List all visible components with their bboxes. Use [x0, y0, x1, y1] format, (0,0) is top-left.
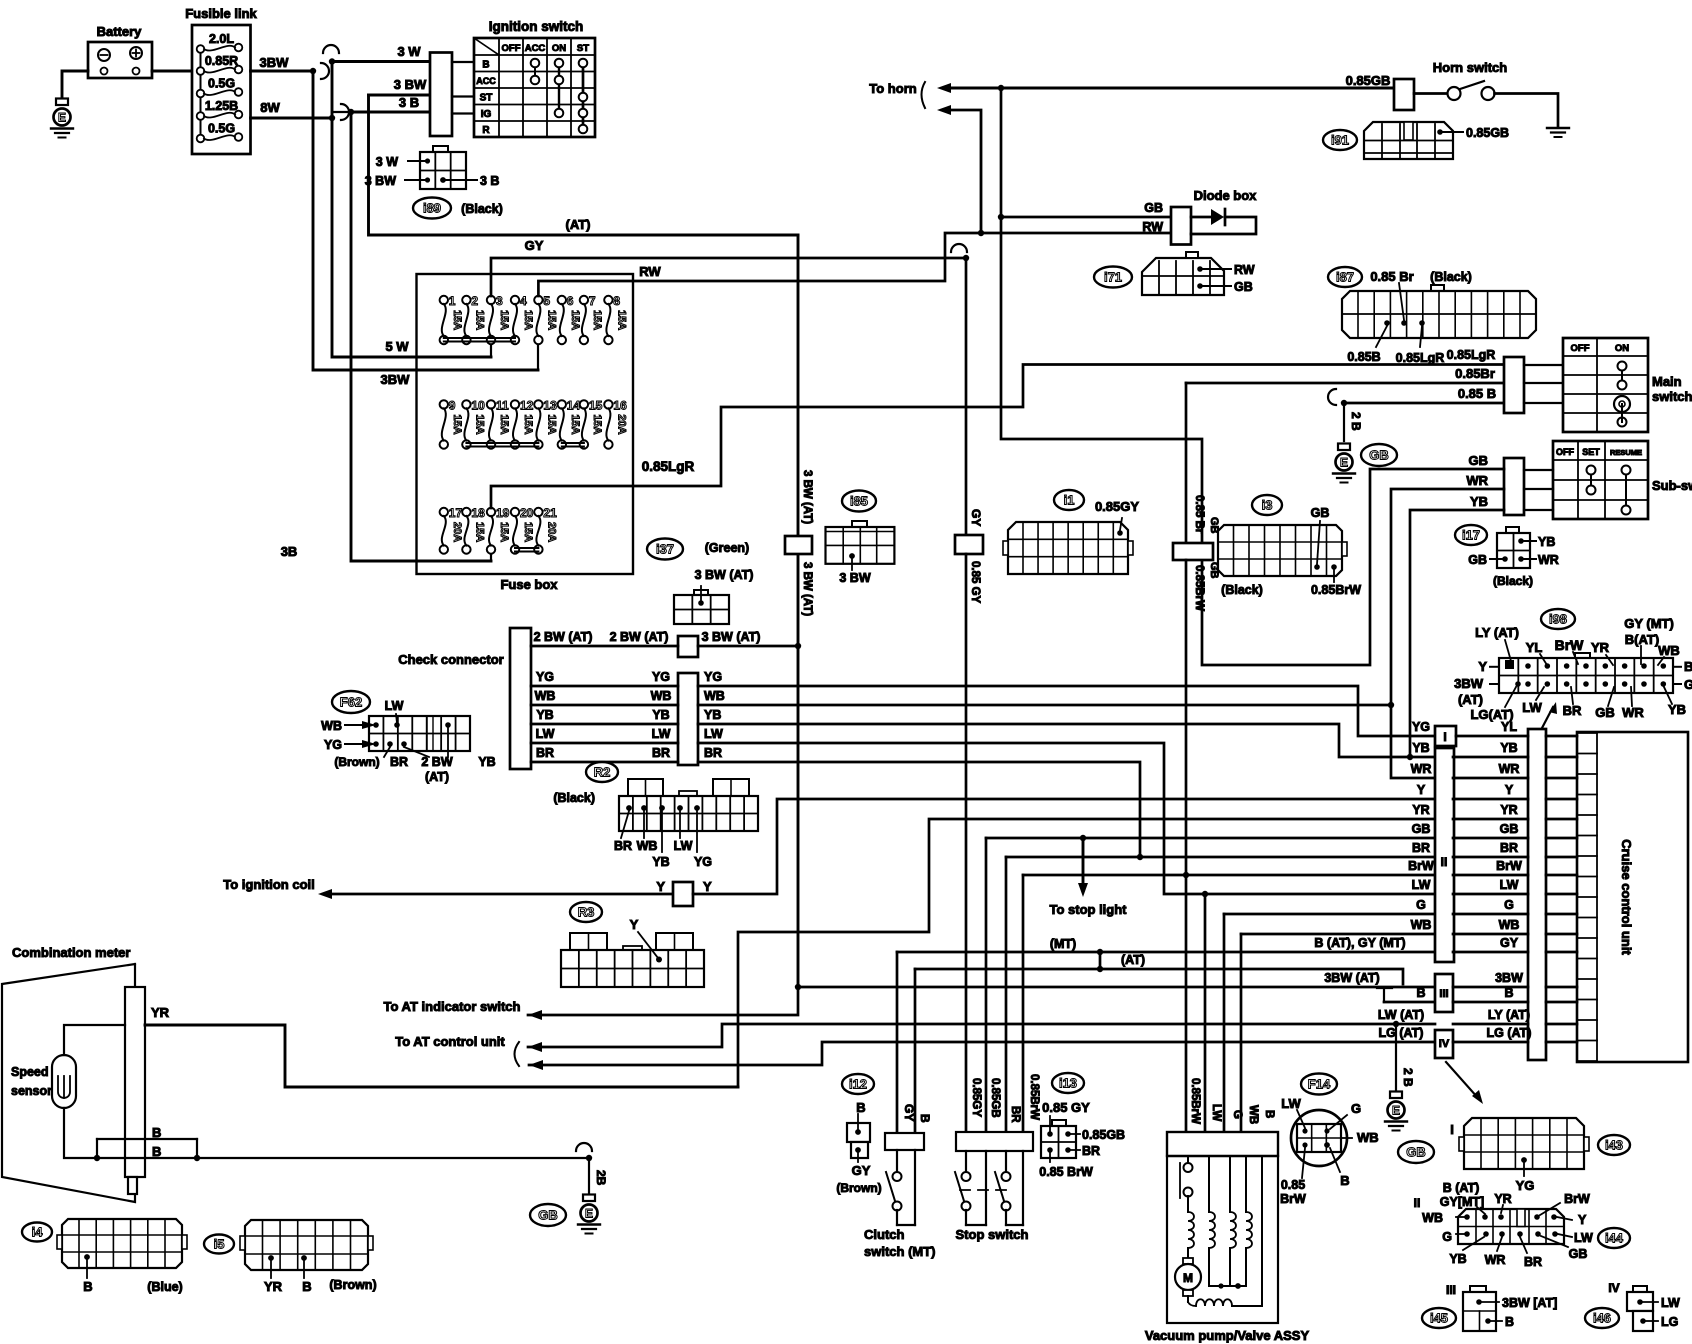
wire BrW row to cruise [1453, 874, 1528, 877]
svg-text:i87: i87 [1336, 270, 1354, 285]
wire 3BW(AT) vertical [797, 235, 800, 987]
svg-text:0.85BrW: 0.85BrW [1311, 583, 1361, 597]
svg-text:YR: YR [151, 1005, 170, 1020]
connector i4 [22, 1223, 52, 1242]
wire speed sensor top [64, 1025, 125, 1055]
wire B to clutch switch [914, 969, 917, 1133]
svg-text:15: 15 [589, 398, 603, 412]
svg-text:YB: YB [1500, 741, 1517, 755]
svg-text:i45: i45 [1430, 1311, 1448, 1326]
wire LW to cruise [698, 743, 1435, 894]
wire horn switch to ground [1495, 94, 1559, 128]
svg-text:1.25B: 1.25B [205, 99, 238, 113]
wire BR to stop switch [1005, 857, 1008, 1132]
fuse 17 20A [440, 508, 448, 516]
svg-text:YR: YR [1494, 1192, 1511, 1206]
wire BR to cruise [698, 762, 1140, 857]
wire to AT indicator switch [528, 987, 798, 1015]
svg-text:B: B [1340, 1173, 1349, 1188]
svg-text:3BW: 3BW [1495, 971, 1523, 985]
GB oval (bottom right) [1398, 1141, 1434, 1163]
svg-text:M: M [1183, 1271, 1193, 1285]
svg-text:E: E [585, 1207, 593, 1221]
svg-text:0.85B: 0.85B [1347, 350, 1380, 364]
ground E (bottom right) [1390, 1092, 1402, 1099]
svg-text:OFF: OFF [502, 43, 521, 54]
vacuum pump box [1167, 1156, 1278, 1323]
stop switch [956, 1132, 1033, 1151]
svg-text:R3: R3 [578, 905, 595, 920]
wire speed sensor bottom B [64, 1108, 589, 1158]
svg-text:GB: GB [1412, 822, 1431, 836]
svg-text:3B: 3B [281, 544, 298, 559]
svg-text:15A: 15A [522, 310, 534, 330]
svg-text:20A: 20A [615, 414, 627, 434]
svg-text:9: 9 [449, 398, 456, 412]
svg-text:G: G [1416, 898, 1426, 912]
svg-text:0.85 GY: 0.85 GY [1042, 1100, 1090, 1115]
wire GB to stop switch [985, 838, 988, 1132]
svg-text:To stop light: To stop light [1049, 902, 1127, 917]
svg-text:i37: i37 [656, 542, 674, 557]
svg-text:3 BW: 3 BW [394, 77, 427, 92]
svg-text:3 BW: 3 BW [365, 174, 396, 188]
svg-text:0.85R: 0.85R [205, 54, 238, 68]
svg-text:B: B [1684, 659, 1692, 674]
wire GY row to cruise [1453, 951, 1528, 954]
connector i12 [842, 1074, 874, 1094]
wire 3B vertical to fuse 19 [351, 112, 491, 561]
junction 2B (main) [1341, 400, 1347, 406]
svg-text:BR: BR [652, 746, 670, 760]
sub-switch contacts [1590, 470, 1592, 490]
wire G row to cruise [1453, 913, 1528, 916]
svg-text:R: R [482, 125, 490, 136]
svg-text:15A: 15A [498, 310, 510, 330]
svg-text:YB: YB [1449, 1252, 1466, 1266]
wire 0.85LgR from fuse 19 [491, 365, 1504, 509]
svg-text:2 BW: 2 BW [421, 755, 452, 769]
svg-text:YL: YL [1526, 640, 1543, 655]
svg-text:BrW: BrW [1555, 637, 1585, 653]
ignition switch connector bar [430, 53, 452, 137]
svg-text:2 BW (AT): 2 BW (AT) [610, 630, 669, 644]
svg-text:YB: YB [1412, 741, 1429, 755]
svg-text:0.85BrW: 0.85BrW [1193, 565, 1205, 611]
svg-text:GY: GY [902, 1104, 916, 1121]
svg-text:2B: 2B [594, 1170, 608, 1186]
ground E (main) [1338, 444, 1350, 451]
cruise middle strip [1528, 729, 1546, 1060]
svg-text:Ignition switch: Ignition switch [489, 19, 584, 34]
wire B row cruise III [1384, 1001, 1435, 1004]
svg-text:II: II [1441, 855, 1448, 869]
wire 3BW row to cruise [1453, 986, 1528, 989]
svg-text:GB: GB [1311, 506, 1330, 520]
sub-switch connector [1504, 458, 1524, 515]
ignition contact lines [534, 63, 536, 80]
connector i87 oval [1328, 267, 1362, 287]
svg-text:LW: LW [1210, 1104, 1222, 1121]
wire YB from sub-switch [1410, 510, 1504, 757]
wire YB to cruise [698, 724, 1435, 757]
svg-text:BR: BR [1524, 1255, 1542, 1269]
svg-text:Y: Y [1578, 1213, 1587, 1227]
connector i91 [1323, 130, 1357, 150]
svg-text:B: B [1504, 986, 1513, 1000]
svg-text:15A: 15A [615, 310, 627, 330]
svg-text:B: B [302, 1279, 311, 1294]
wire YG to cruise [698, 686, 1435, 736]
svg-text:Battery: Battery [97, 24, 143, 39]
connector i13 [1052, 1073, 1084, 1093]
ground E (bottom) [583, 1195, 595, 1202]
svg-text:OFF: OFF [1571, 343, 1590, 354]
svg-text:Cruise control unit: Cruise control unit [1619, 839, 1634, 955]
svg-text:2.0L: 2.0L [209, 32, 234, 46]
svg-text:20: 20 [520, 506, 534, 520]
svg-text:(Black): (Black) [461, 202, 503, 216]
svg-text:0.85GB: 0.85GB [1082, 1128, 1125, 1142]
svg-text:19: 19 [496, 506, 510, 520]
svg-text:(Black): (Black) [1493, 574, 1533, 588]
svg-text:To AT indicator switch: To AT indicator switch [384, 999, 521, 1014]
svg-text:21: 21 [543, 506, 557, 520]
wire bar to ignition table ST [452, 95, 474, 97]
svg-text:G: G [1684, 677, 1692, 692]
wire G row [1224, 913, 1435, 916]
svg-text:(AT): (AT) [425, 770, 449, 784]
svg-text:16: 16 [613, 398, 627, 412]
i98 arrow [1542, 707, 1553, 728]
svg-text:GB: GB [1500, 822, 1519, 836]
wire RW from fuse 5 [538, 233, 1171, 296]
svg-text:BR: BR [1563, 703, 1582, 718]
svg-text:WB: WB [1247, 1105, 1259, 1124]
svg-text:ACC: ACC [476, 76, 496, 86]
svg-text:0.85BrW: 0.85BrW [1189, 1078, 1201, 1124]
svg-text:II: II [1414, 1196, 1421, 1210]
main switch connector [1504, 357, 1524, 413]
wire to horn 2 [951, 110, 981, 233]
svg-text:(Brown): (Brown) [836, 1181, 881, 1195]
svg-text:B: B [152, 1144, 161, 1159]
svg-text:B: B [482, 60, 489, 71]
connector i5 [204, 1235, 234, 1254]
fuse 16 20A [604, 400, 612, 408]
svg-text:(Brown): (Brown) [334, 755, 379, 769]
junction 3W [329, 58, 335, 64]
svg-text:WB: WB [321, 719, 342, 733]
to ignition coil arrow [318, 889, 332, 899]
svg-text:BR: BR [1500, 841, 1518, 855]
svg-text:(AT): (AT) [1121, 953, 1145, 967]
svg-text:2: 2 [471, 294, 478, 308]
fuse 19 15A [487, 508, 495, 516]
svg-text:B (AT): B (AT) [1443, 1181, 1480, 1195]
svg-text:IG: IG [481, 109, 492, 120]
svg-text:0.85 GY: 0.85 GY [969, 561, 981, 604]
svg-text:ACC: ACC [525, 43, 546, 54]
svg-text:i85: i85 [850, 494, 868, 509]
svg-text:0.85LgR: 0.85LgR [1447, 348, 1496, 362]
svg-text:0.85: 0.85 [1281, 1178, 1305, 1192]
wire 2B to ground (right) [1395, 1024, 1397, 1090]
wire WB check to WR junction [698, 704, 1391, 707]
svg-text:i3: i3 [1262, 498, 1273, 513]
cruise connector IV [1435, 1030, 1453, 1058]
svg-text:14: 14 [567, 398, 581, 412]
svg-text:To AT control unit: To AT control unit [395, 1034, 505, 1049]
svg-text:YG: YG [324, 738, 342, 752]
svg-text:YR: YR [1412, 803, 1429, 817]
svg-text:15A: 15A [473, 522, 485, 542]
svg-text:2 B: 2 B [1401, 1068, 1415, 1087]
svg-text:Y: Y [1478, 659, 1487, 674]
wire WB row to cruise [1453, 933, 1528, 936]
svg-text:YG: YG [1516, 1178, 1535, 1193]
wire 3BW fusible link to node [251, 70, 314, 73]
wire WB check row left [531, 704, 678, 707]
svg-text:YG: YG [694, 855, 712, 869]
svg-text:10: 10 [471, 398, 485, 412]
combination meter bar [125, 987, 145, 1177]
clutch switch [885, 1133, 924, 1150]
svg-text:G: G [1351, 1101, 1361, 1116]
fuse 3 15A [487, 296, 495, 304]
svg-text:YB: YB [1668, 702, 1686, 717]
svg-text:0.85 B: 0.85 B [1458, 386, 1496, 401]
svg-text:III: III [1446, 1283, 1456, 1297]
wire GB to sub-switch [1202, 469, 1504, 665]
svg-text:i17: i17 [1462, 528, 1480, 543]
wire BR row [1006, 856, 1435, 859]
svg-text:LW: LW [1500, 878, 1519, 892]
svg-text:Clutch: Clutch [864, 1227, 905, 1242]
connector i37 [647, 539, 683, 560]
svg-text:GB: GB [1469, 453, 1489, 468]
svg-text:(Brown): (Brown) [329, 1278, 376, 1292]
svg-text:15A: 15A [498, 522, 510, 542]
svg-text:F14: F14 [1308, 1077, 1331, 1092]
svg-text:Y: Y [1505, 783, 1514, 797]
fuse 11 15A [487, 400, 495, 408]
svg-text:WB: WB [637, 839, 658, 853]
svg-text:5: 5 [543, 294, 550, 308]
wire Y [332, 893, 673, 896]
wire YL row to cruise [1456, 735, 1528, 738]
wire YR row to cruise [1453, 818, 1528, 821]
wire 2B to ground [1343, 403, 1345, 441]
fuse 1 15A [440, 296, 448, 304]
cruise connector I [1435, 726, 1456, 746]
svg-text:ST: ST [577, 43, 589, 54]
fuse 13 15A [534, 400, 542, 408]
svg-text:3 BW (AT): 3 BW (AT) [695, 568, 754, 582]
svg-text:LW: LW [1574, 1231, 1593, 1245]
svg-text:GB: GB [1234, 280, 1253, 294]
svg-text:i98: i98 [1549, 612, 1567, 627]
wire WB row [1241, 933, 1435, 936]
svg-text:8W: 8W [260, 100, 280, 115]
svg-text:0.85 BrW: 0.85 BrW [1039, 1165, 1093, 1179]
svg-text:B: B [1416, 986, 1425, 1000]
svg-text:LW: LW [1412, 878, 1431, 892]
svg-text:BR: BR [1412, 841, 1430, 855]
svg-text:B: B [1263, 1110, 1275, 1118]
wire LG(AT) row [529, 1042, 1435, 1065]
svg-text:RESUME: RESUME [1610, 448, 1642, 457]
wire bar to ignition table IG [452, 112, 474, 114]
fuse 7 15A [580, 296, 588, 304]
wire YB check row left [531, 723, 678, 726]
MT/AT link arrow [1099, 952, 1102, 969]
svg-text:(Green): (Green) [705, 541, 749, 555]
svg-text:15A: 15A [545, 310, 557, 330]
fuse 6 15A [558, 296, 566, 304]
svg-text:GB: GB [1406, 1145, 1426, 1160]
diode box connector [1171, 207, 1191, 245]
svg-text:3BW: 3BW [260, 55, 290, 70]
svg-text:Y: Y [703, 879, 712, 894]
svg-text:LG (AT): LG (AT) [1487, 1026, 1532, 1040]
svg-text:B: B [856, 1100, 865, 1115]
to horn arrow 1 [937, 83, 951, 93]
svg-text:GY: GY [1500, 936, 1519, 950]
fuse 9 15A [440, 400, 448, 408]
svg-text:GY: GY [525, 238, 544, 253]
svg-text:i5: i5 [214, 1237, 225, 1252]
wire 0.85GY vertical [965, 554, 968, 1132]
wire LW row to cruise [1453, 893, 1528, 896]
svg-text:i71: i71 [1104, 270, 1122, 285]
connector i98 [1541, 609, 1575, 629]
svg-text:LG(AT): LG(AT) [1470, 707, 1513, 722]
svg-text:sensor: sensor [11, 1084, 52, 1098]
wire 3BW(AT) row [698, 645, 798, 648]
wire 0.85B [1344, 402, 1504, 405]
svg-text:YB: YB [478, 755, 495, 769]
svg-text:BrW: BrW [1564, 1192, 1590, 1206]
svg-text:WB: WB [535, 689, 556, 703]
svg-text:6: 6 [567, 294, 574, 308]
3BW(AT) inline connector [785, 536, 812, 554]
svg-text:15A: 15A [591, 414, 603, 434]
connector i1 [1054, 490, 1084, 510]
svg-text:3BW [AT]: 3BW [AT] [1502, 1296, 1557, 1310]
svg-text:E: E [1340, 456, 1348, 470]
inline connector (Br/GB) [1173, 543, 1213, 560]
sub-switch table [1553, 441, 1648, 519]
wire 0.85Br [1186, 382, 1504, 385]
wire BR row to cruise [1453, 856, 1528, 859]
svg-text:3 BW (AT): 3 BW (AT) [702, 630, 761, 644]
svg-text:12: 12 [520, 398, 534, 412]
svg-text:7: 7 [589, 294, 596, 308]
svg-text:20A: 20A [545, 522, 557, 542]
wire 0.85BrW vertical [1185, 560, 1188, 1132]
svg-text:LW: LW [1661, 1296, 1680, 1310]
svg-text:B(AT): B(AT) [1625, 632, 1659, 647]
svg-text:BrW: BrW [1496, 859, 1522, 873]
vacuum pump rail [1167, 1132, 1278, 1156]
main switch contacts [1621, 366, 1623, 385]
junction GY [963, 255, 969, 261]
svg-text:LW: LW [536, 727, 555, 741]
fuse 2 15A [462, 296, 470, 304]
svg-text:Fuse box: Fuse box [500, 577, 558, 592]
connector i71 [1094, 267, 1132, 288]
svg-text:I: I [1443, 730, 1446, 744]
svg-text:BR: BR [390, 755, 408, 769]
fuse 12 15A [511, 400, 519, 408]
svg-text:Stop switch: Stop switch [956, 1227, 1029, 1242]
i44 oval [1598, 1228, 1630, 1248]
svg-text:15A: 15A [522, 522, 534, 542]
wire LW check row left [531, 742, 678, 745]
svg-text:YG: YG [704, 670, 722, 684]
svg-text:WB: WB [1357, 1130, 1379, 1145]
fuse 4 15A [511, 296, 519, 304]
fuse 10 15A [462, 400, 470, 408]
svg-text:YR: YR [1500, 803, 1517, 817]
svg-text:ON: ON [552, 43, 566, 54]
svg-text:Sub-switch: Sub-switch [1652, 478, 1692, 493]
svg-text:LY (AT): LY (AT) [1475, 625, 1519, 640]
svg-text:F62: F62 [340, 695, 362, 710]
wire GY vertical [965, 258, 968, 537]
connector i87 [1431, 285, 1444, 291]
svg-text:(Black): (Black) [553, 791, 595, 805]
svg-text:Y: Y [1417, 783, 1426, 797]
fuse 21 20A [534, 508, 542, 516]
svg-text:0.85 Br: 0.85 Br [1370, 269, 1413, 284]
check connector strip 2 [678, 636, 698, 657]
svg-text:15A: 15A [473, 414, 485, 434]
wire WB to vacuum pump [1240, 934, 1243, 1132]
svg-text:3BW (AT): 3BW (AT) [1324, 971, 1379, 985]
svg-text:WR: WR [1485, 1253, 1506, 1267]
svg-text:0.85GY: 0.85GY [970, 1078, 982, 1117]
wire battery to ground [62, 71, 88, 100]
svg-text:2 BW (AT): 2 BW (AT) [534, 630, 593, 644]
svg-text:WR: WR [1538, 553, 1559, 567]
svg-text:B: B [152, 1125, 161, 1140]
fuse bus row2 [466, 442, 538, 444]
svg-text:i13: i13 [1059, 1076, 1077, 1091]
svg-text:RW: RW [1142, 220, 1163, 234]
speed sensor [52, 1055, 76, 1108]
svg-text:IV: IV [1439, 1038, 1450, 1050]
svg-text:0.85GB: 0.85GB [989, 1078, 1001, 1118]
svg-text:i1: i1 [1064, 493, 1075, 508]
fusible link box [192, 25, 251, 154]
svg-text:4: 4 [520, 294, 527, 308]
horn switch connector [1394, 79, 1414, 110]
fuse bus row3 [515, 547, 538, 549]
horn switch [1414, 92, 1447, 95]
svg-text:13: 13 [543, 398, 557, 412]
svg-text:BR: BR [1082, 1144, 1100, 1158]
wire LY (AT) row to cruise [1453, 1023, 1528, 1026]
svg-text:BR: BR [536, 746, 554, 760]
wire 3BW vertical to fuse box [313, 71, 538, 370]
svg-text:BR: BR [1009, 1106, 1021, 1123]
check connector bar [510, 628, 531, 769]
svg-text:WB: WB [704, 689, 725, 703]
wire GB row [986, 837, 1435, 840]
svg-text:LG (AT): LG (AT) [1379, 1026, 1424, 1040]
